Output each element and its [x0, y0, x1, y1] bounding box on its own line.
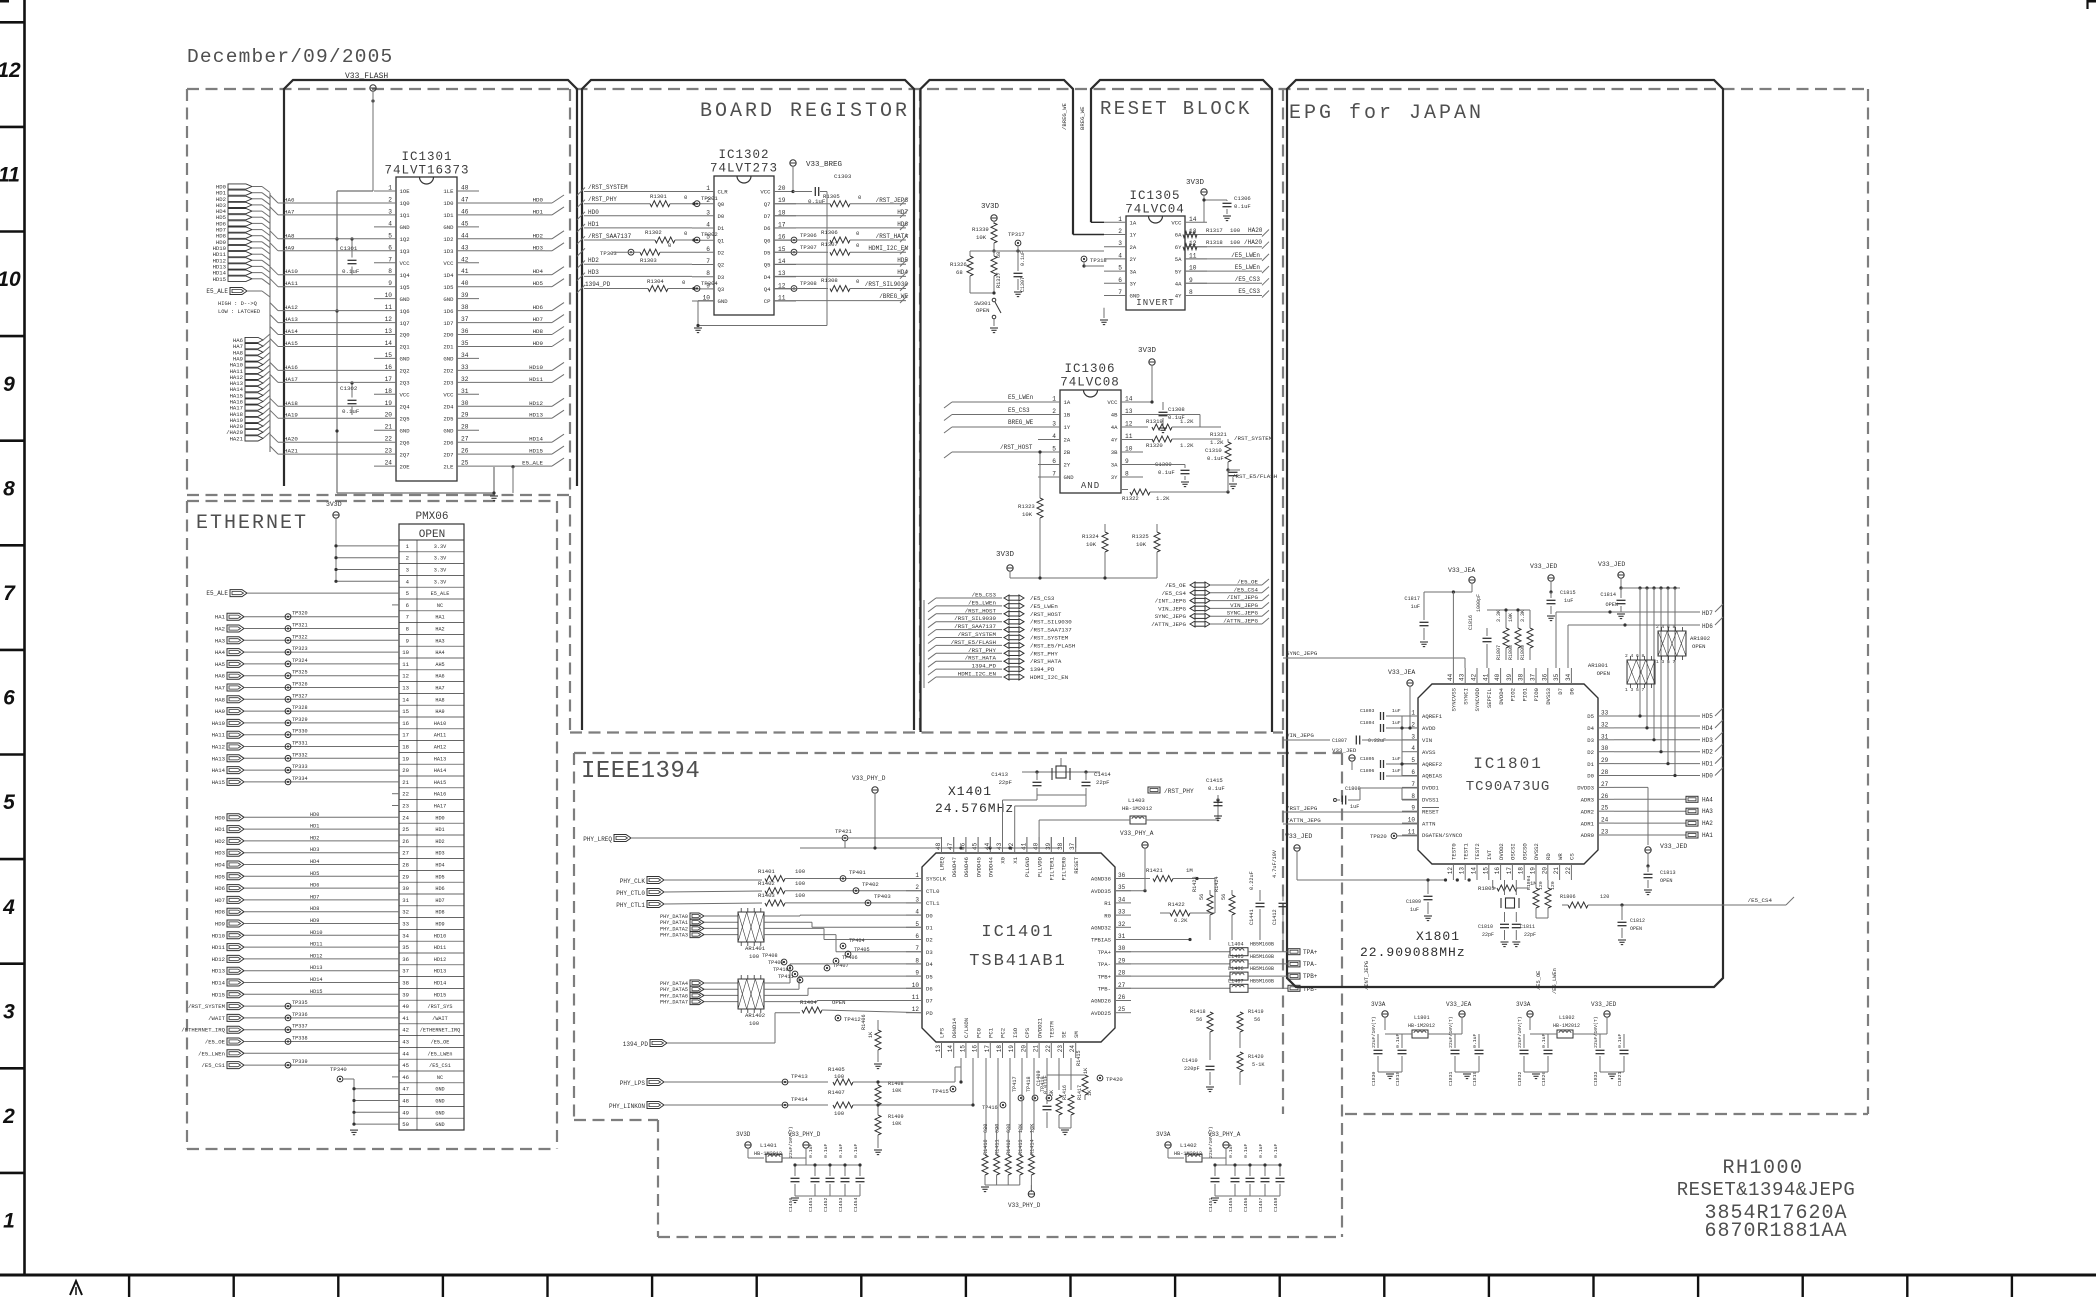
svg-text:HA9: HA9 [284, 244, 295, 251]
svg-text:GND: GND [1064, 474, 1075, 481]
svg-text:R1325: R1325 [1132, 533, 1149, 540]
svg-text:HD14: HD14 [310, 977, 322, 983]
svg-text:1394_PD: 1394_PD [1030, 666, 1055, 673]
svg-text:22uF/10V(T): 22uF/10V(T) [1517, 1016, 1523, 1048]
svg-text:TEST0: TEST0 [1451, 843, 1458, 860]
svg-text:1uF: 1uF [1410, 907, 1419, 913]
svg-text:HD8: HD8 [533, 328, 544, 335]
svg-text:HD0: HD0 [1702, 773, 1713, 780]
svg-text:13: 13 [935, 1045, 942, 1053]
wire SYNC_JEPG [1283, 650, 1380, 658]
svg-text:28: 28 [402, 862, 409, 869]
testpoint TP318 [1081, 256, 1107, 268]
svg-text:1: 1 [3, 1210, 15, 1233]
svg-text:24: 24 [385, 460, 393, 467]
resistor R1808 10K [1508, 610, 1521, 660]
bus entry fan HD0-HD15 into IC1301 [213, 184, 270, 285]
svg-text:/ETHERNET_IRQ: /ETHERNET_IRQ [181, 1027, 225, 1034]
svg-text:HA4: HA4 [1702, 796, 1713, 803]
svg-text:33: 33 [402, 921, 409, 928]
svg-text:/RST_SYSTEM: /RST_SYSTEM [1234, 435, 1273, 442]
svg-text:6870R1881AA: 6870R1881AA [1704, 1220, 1847, 1243]
svg-text:VCC: VCC [1107, 399, 1118, 406]
svg-text:3Y: 3Y [1111, 474, 1118, 481]
svg-text:0: 0 [858, 194, 862, 201]
svg-text:10K: 10K [892, 1088, 902, 1094]
svg-text:PHY_DATA5: PHY_DATA5 [660, 987, 688, 993]
svg-text:1Q5: 1Q5 [400, 284, 410, 291]
svg-text:100: 100 [795, 868, 806, 875]
svg-text:5: 5 [3, 791, 15, 814]
svg-text:4B: 4B [1111, 412, 1118, 419]
svg-text:/E5_OE: /E5_OE [431, 1040, 450, 1046]
svg-text:68: 68 [956, 269, 963, 276]
svg-text:C1413: C1413 [991, 771, 1008, 778]
svg-text:C1832: C1832 [1517, 1071, 1523, 1086]
svg-text:3V3D: 3V3D [996, 551, 1015, 559]
svg-text:39: 39 [461, 292, 469, 299]
resistor R1804 120 [1526, 875, 1544, 918]
resistor R1409 10K [874, 1103, 904, 1154]
svg-text:TP412: TP412 [844, 1016, 861, 1023]
solid box reset small (BREG nets) [921, 80, 1105, 732]
svg-text:PC1: PC1 [988, 1027, 995, 1038]
svg-text:HD15: HD15 [212, 991, 225, 998]
svg-text:1D5: 1D5 [443, 284, 453, 291]
net label list right (jepg nets) [1151, 579, 1269, 629]
svg-text:1: 1 [388, 185, 392, 192]
resistor R1809 3.3K [1520, 610, 1533, 660]
block outline dashed EPG bottom edge [1345, 1113, 1868, 1115]
svg-text:17: 17 [385, 376, 393, 383]
svg-text:1Q6: 1Q6 [400, 308, 410, 315]
svg-text:OPEN: OPEN [976, 307, 989, 314]
svg-text:/E5_CS3: /E5_CS3 [1030, 595, 1055, 602]
svg-text:TP321: TP321 [292, 623, 308, 629]
wires left of IC1302 with R1301-R1304 [584, 184, 718, 292]
svg-text:/RST_E5/FLASH: /RST_E5/FLASH [1030, 642, 1076, 649]
filter cluster L1802 3V3A/V33_JED [1516, 1001, 1629, 1086]
svg-text:39: 39 [1506, 673, 1513, 681]
svg-text:2D0: 2D0 [443, 332, 454, 339]
svg-text:R1302: R1302 [645, 229, 662, 236]
svg-text:HD4: HD4 [215, 862, 226, 869]
svg-text:0.1uF: 0.1uF [1243, 1143, 1249, 1158]
svg-text:ETHERNET: ETHERNET [196, 512, 308, 535]
power V33_BREG [790, 160, 843, 169]
svg-text:HA13: HA13 [434, 756, 446, 762]
svg-text:30: 30 [1601, 745, 1609, 752]
svg-text:35: 35 [1553, 673, 1560, 681]
svg-text:SM: SM [1073, 1031, 1080, 1038]
titleblock RH1000 [1722, 1157, 1803, 1180]
svg-text:HD4: HD4 [435, 863, 444, 869]
svg-text:GND: GND [443, 356, 454, 363]
resistor array AR1802 OPEN [1656, 624, 1710, 665]
svg-text:1.2K: 1.2K [1180, 442, 1194, 449]
svg-text:30: 30 [402, 885, 409, 892]
switch SW301 OPEN [970, 291, 1001, 332]
svg-text:TP303: TP303 [600, 250, 617, 257]
svg-text:4: 4 [1118, 252, 1122, 259]
svg-text:35: 35 [1118, 884, 1126, 891]
svg-text:L1403: L1403 [1128, 797, 1145, 804]
svg-text:SE: SE [1061, 1031, 1068, 1038]
svg-text:HD10: HD10 [529, 364, 543, 371]
svg-text:PHY_LPS: PHY_LPS [620, 1080, 646, 1087]
svg-text:/RST_SAA7137: /RST_SAA7137 [1030, 627, 1072, 634]
wires right of IC1305 R1317 R1318 [1183, 227, 1263, 296]
svg-text:HA4: HA4 [215, 649, 226, 656]
svg-text:R1406: R1406 [861, 1014, 867, 1030]
svg-text:HD8: HD8 [215, 909, 225, 916]
svg-text:CP: CP [764, 298, 771, 305]
svg-text:/RST_E5/FLASH: /RST_E5/FLASH [1232, 473, 1278, 480]
svg-text:37: 37 [461, 316, 469, 323]
svg-text:29: 29 [402, 873, 409, 880]
svg-text:TP324: TP324 [292, 658, 308, 664]
svg-text:DVDD1: DVDD1 [1422, 785, 1439, 792]
ground under IC1301 [490, 496, 498, 501]
svg-text:3.3V: 3.3V [434, 568, 447, 574]
resistor R1803 1M [1478, 880, 1537, 892]
block outline dashed top edge [187, 88, 1868, 90]
svg-text:C1817: C1817 [1404, 596, 1420, 602]
filter cluster L1402 C1451 C1455-C1458 [1156, 1126, 1285, 1212]
svg-text:HA21: HA21 [230, 435, 244, 442]
svg-text:AQBIAS: AQBIAS [1422, 773, 1443, 780]
wires HA6-HA21 to IC1301 pins [278, 197, 374, 455]
svg-text:14: 14 [1189, 216, 1197, 223]
svg-text:HA8: HA8 [215, 696, 225, 703]
svg-text:2D3: 2D3 [443, 380, 453, 387]
svg-text:2B: 2B [1064, 449, 1071, 456]
svg-text:V33_PHY_D: V33_PHY_D [1008, 1202, 1041, 1209]
svg-text:6: 6 [915, 933, 919, 940]
svg-text:R1317: R1317 [1206, 227, 1223, 234]
svg-text:8: 8 [3, 477, 15, 500]
svg-text:3V3D: 3V3D [981, 203, 1000, 211]
svg-text:8: 8 [706, 270, 710, 277]
svg-text:HB-1M2012: HB-1M2012 [1553, 1023, 1580, 1029]
resistor R1419 56 [1237, 1009, 1264, 1048]
svg-text:DVDD2: DVDD2 [1498, 843, 1505, 860]
svg-text:OPEN: OPEN [832, 999, 845, 1006]
svg-text:HD1: HD1 [533, 208, 544, 215]
svg-text:1D4: 1D4 [443, 272, 454, 279]
svg-text:22pF: 22pF [999, 779, 1012, 786]
svg-text:100: 100 [795, 892, 806, 899]
svg-text:HA12: HA12 [212, 744, 225, 751]
svg-text:50: 50 [402, 1121, 409, 1128]
svg-text:PLLVDD: PLLVDD [1036, 856, 1043, 877]
svg-text:20: 20 [1020, 1045, 1027, 1053]
svg-text:9: 9 [915, 970, 919, 977]
svg-text:/E5_LWEn: /E5_LWEn [428, 1051, 453, 1057]
wires bottom pins IC1401 [959, 1058, 1071, 1130]
svg-text:V33_JEA: V33_JEA [1388, 669, 1415, 676]
svg-text:HB5M160B: HB5M160B [1250, 978, 1274, 984]
svg-text:TP405: TP405 [854, 947, 870, 953]
svg-text:AND: AND [1081, 481, 1100, 491]
svg-text:/RST_SIL9030: /RST_SIL9030 [954, 615, 996, 622]
svg-text:680: 680 [983, 1124, 989, 1133]
svg-text:4: 4 [1411, 745, 1415, 752]
svg-text:25: 25 [402, 826, 409, 833]
resistor R1422 6.2K [1115, 879, 1215, 925]
svg-text:HB5M160B: HB5M160B [1250, 954, 1274, 960]
svg-text:HA16: HA16 [284, 364, 298, 371]
resistor R1322 1.2K [1121, 470, 1278, 502]
svg-text:2OE: 2OE [400, 463, 411, 470]
svg-text:7: 7 [1118, 289, 1122, 296]
svg-text:4A: 4A [1111, 424, 1118, 431]
resistor R1807 3.3K [1496, 610, 1509, 660]
svg-text:6.2K: 6.2K [1174, 917, 1188, 924]
svg-text:29: 29 [461, 412, 469, 419]
svg-text:TP323: TP323 [292, 646, 308, 652]
svg-text:Q6: Q6 [764, 237, 771, 244]
svg-text:47: 47 [402, 1086, 409, 1093]
svg-text:22uF/10V(T): 22uF/10V(T) [788, 1126, 794, 1158]
svg-text:V33_JED: V33_JED [1332, 747, 1357, 754]
svg-text:27: 27 [1118, 982, 1126, 989]
svg-text:HD12: HD12 [529, 400, 543, 407]
testpoint TP340 gnd pins [330, 1066, 399, 1135]
svg-text:7: 7 [915, 945, 919, 952]
svg-text:VCC: VCC [760, 189, 771, 196]
wire V33_FLASH to IC1301 [372, 91, 374, 191]
wire VIN_JEPG C1807 [1283, 732, 1418, 745]
svg-text:TP416: TP416 [982, 1105, 998, 1111]
svg-text:HIGH : D-->Q: HIGH : D-->Q [218, 301, 257, 307]
wire bundle V33_JED pullups [1638, 586, 1676, 774]
svg-text:0.1uF: 0.1uF [838, 1143, 844, 1158]
svg-text:6: 6 [406, 602, 409, 609]
svg-text:HA12: HA12 [284, 304, 298, 311]
svg-text:HD6: HD6 [533, 304, 544, 311]
svg-text:HD11: HD11 [212, 944, 226, 951]
svg-text:17: 17 [1506, 867, 1513, 875]
svg-text:E5_LWEn: E5_LWEn [1235, 264, 1261, 271]
svg-text:32: 32 [1118, 921, 1126, 928]
resistor R1324 10K [1082, 524, 1108, 560]
svg-text:3: 3 [3, 1000, 15, 1023]
svg-text:7: 7 [1052, 471, 1056, 478]
svg-text:HA20: HA20 [284, 436, 298, 443]
svg-text:3: 3 [1052, 421, 1056, 428]
svg-text:56: 56 [1254, 1017, 1260, 1023]
svg-text:18: 18 [996, 1045, 1003, 1053]
svg-text:3A: 3A [1130, 268, 1137, 275]
svg-text:0.1uF: 0.1uF [342, 408, 360, 415]
svg-text:36: 36 [461, 328, 469, 335]
svg-text:5-1K: 5-1K [1252, 1062, 1265, 1068]
svg-text:HA2: HA2 [1702, 820, 1713, 827]
svg-text:31: 31 [461, 388, 469, 395]
svg-text:AGND26: AGND26 [1091, 998, 1111, 1005]
svg-text:11: 11 [385, 304, 393, 311]
svg-text:0: 0 [668, 242, 672, 249]
svg-text:9: 9 [1125, 458, 1129, 465]
svg-text:HD3: HD3 [310, 847, 319, 853]
svg-text:V33_JED: V33_JED [1598, 561, 1625, 568]
svg-text:1: 1 [1052, 396, 1056, 403]
svg-text:HD0: HD0 [435, 815, 444, 821]
filter cluster L1801 3V3A/V33_JEA [1371, 1001, 1484, 1086]
svg-text:V33_JEA: V33_JEA [1448, 567, 1475, 574]
svg-text:100: 100 [834, 1073, 845, 1080]
capacitor C1816 1000pF [1468, 594, 1492, 668]
svg-text:10K: 10K [1136, 541, 1147, 548]
svg-text:R1803: R1803 [1478, 885, 1495, 892]
svg-text:11: 11 [1125, 433, 1133, 440]
svg-text:DGND14: DGND14 [951, 1017, 958, 1038]
svg-text:L1401: L1401 [760, 1142, 777, 1149]
svg-text:HD0: HD0 [215, 814, 226, 821]
svg-text:RESET BLOCK: RESET BLOCK [1100, 98, 1252, 120]
svg-text:14: 14 [402, 696, 409, 703]
svg-text:PHY_DATA3: PHY_DATA3 [660, 933, 688, 939]
svg-text:1uF: 1uF [1411, 604, 1420, 610]
svg-text:26: 26 [402, 838, 409, 845]
svg-text:HB5M160B: HB5M160B [1250, 942, 1274, 948]
svg-text:HD3: HD3 [588, 269, 599, 276]
svg-text:D2: D2 [926, 937, 933, 944]
svg-text:C1303: C1303 [834, 173, 852, 180]
wires D5-D0 to HD5-HD0 [1614, 708, 1723, 780]
power V33_JED right [1645, 843, 1688, 868]
svg-text:1uF: 1uF [1350, 804, 1359, 810]
svg-text:2Q1: 2Q1 [400, 344, 411, 351]
svg-text:X1: X1 [1012, 856, 1019, 863]
wire DVDD3 pin27 [1614, 787, 1648, 845]
power V33_PHY_D bottom [1008, 1185, 1041, 1209]
svg-text:49: 49 [402, 1109, 409, 1116]
svg-text:HD9: HD9 [533, 340, 544, 347]
svg-text:HA3: HA3 [435, 638, 444, 644]
svg-text:R1307: R1307 [821, 241, 838, 248]
svg-text:10K: 10K [1508, 613, 1514, 622]
svg-text:X1801: X1801 [1416, 929, 1460, 944]
svg-text:C1455: C1455 [1228, 1197, 1234, 1212]
svg-text:/E5_CS1: /E5_CS1 [429, 1063, 451, 1069]
svg-text:D0: D0 [1587, 773, 1594, 780]
svg-text:220pF: 220pF [1184, 1066, 1200, 1072]
svg-text:R1305: R1305 [823, 193, 840, 200]
svg-text:PHY_DATA1: PHY_DATA1 [660, 920, 688, 926]
svg-text:/E5_OE: /E5_OE [1165, 582, 1186, 589]
resistor R1408 10K [875, 1080, 904, 1105]
wire /ATTN_JEPG [1283, 817, 1418, 824]
svg-text:/RST_E5/FLASH: /RST_E5/FLASH [951, 639, 997, 646]
svg-text:HA14: HA14 [434, 768, 446, 774]
svg-text:HD1: HD1 [1702, 761, 1713, 768]
svg-text:TP409: TP409 [768, 960, 784, 966]
svg-text:VCC: VCC [400, 392, 411, 399]
svg-text:/E5_CS1: /E5_CS1 [202, 1062, 226, 1069]
svg-text:R1407: R1407 [828, 1089, 845, 1096]
svg-text:42: 42 [402, 1027, 409, 1034]
svg-text:3.3V: 3.3V [434, 544, 447, 550]
svg-text:R1414: R1414 [1029, 1139, 1035, 1155]
svg-text:0.1uF: 0.1uF [1395, 1033, 1401, 1048]
svg-text:2: 2 [1411, 721, 1415, 728]
svg-text:2A: 2A [1130, 244, 1137, 251]
svg-text:GND: GND [443, 427, 454, 434]
svg-text:TP411: TP411 [778, 974, 794, 980]
svg-text:2Y: 2Y [1064, 462, 1071, 469]
svg-text:48: 48 [461, 185, 469, 192]
svg-text:0: 0 [684, 194, 688, 201]
svg-text:D4: D4 [1587, 725, 1594, 732]
svg-text:44: 44 [461, 232, 469, 239]
signal E5_ALE to PMX06 [206, 590, 399, 598]
svg-text:3.3K: 3.3K [1496, 610, 1502, 622]
svg-text:L1801: L1801 [1414, 1015, 1430, 1021]
svg-text:1Q7: 1Q7 [400, 320, 410, 327]
svg-text:December/09/2005: December/09/2005 [187, 46, 393, 68]
svg-text:GND: GND [443, 224, 454, 231]
solid box RESET BLOCK [1091, 80, 1272, 732]
svg-text:/RST_SYSTEM: /RST_SYSTEM [958, 631, 997, 638]
svg-text:HA9: HA9 [215, 708, 225, 715]
svg-text:D4: D4 [926, 961, 933, 968]
svg-text:ADR1: ADR1 [1581, 820, 1595, 827]
svg-text:OPEN: OPEN [1692, 643, 1705, 650]
capacitor C1812 OPEN [1618, 903, 1646, 944]
svg-text:23: 23 [385, 448, 393, 455]
IC IC1305 74LVC04 [1104, 189, 1207, 310]
svg-text:/E5_CS4: /E5_CS4 [1234, 586, 1259, 593]
svg-text:VIN_JEPG: VIN_JEPG [1230, 602, 1258, 609]
svg-text:1uF: 1uF [1392, 720, 1401, 726]
svg-text:IC1301: IC1301 [401, 150, 452, 164]
svg-text:PHY_DATA0: PHY_DATA0 [660, 914, 688, 920]
svg-text:HD12: HD12 [212, 956, 225, 963]
connector PMX06 OPEN 50-pin table [392, 511, 464, 1130]
svg-text:DVDD21: DVDD21 [1036, 1017, 1043, 1038]
svg-text:OPEN: OPEN [1630, 926, 1642, 932]
svg-text:IC1401: IC1401 [981, 923, 1054, 942]
svg-text:HD4: HD4 [533, 268, 544, 275]
svg-text:1OE: 1OE [400, 188, 411, 195]
svg-text:17: 17 [984, 1045, 991, 1053]
svg-text:HA10: HA10 [284, 268, 298, 275]
svg-text:18: 18 [778, 209, 786, 216]
svg-text:SYNC_JEPG: SYNC_JEPG [1227, 610, 1259, 617]
svg-text:6: 6 [1411, 769, 1415, 776]
svg-text:120: 120 [1538, 881, 1544, 890]
svg-text:56: 56 [1199, 894, 1205, 900]
svg-text:35: 35 [402, 944, 409, 951]
svg-text:PLLGND: PLLGND [1024, 856, 1031, 877]
svg-text:HD5: HD5 [897, 257, 908, 264]
svg-text:28: 28 [1118, 970, 1126, 977]
svg-text:56: 56 [1196, 1017, 1202, 1023]
svg-text:41: 41 [1020, 842, 1027, 850]
svg-text:VCC: VCC [443, 260, 454, 267]
svg-text:/RST_HATA: /RST_HATA [965, 655, 997, 662]
svg-text:D0: D0 [926, 912, 933, 919]
svg-text:HD3: HD3 [1702, 737, 1713, 744]
svg-text:120: 120 [1550, 881, 1556, 890]
svg-text:/INT_JEPG: /INT_JEPG [1364, 961, 1370, 990]
svg-text:Q2: Q2 [718, 262, 725, 269]
svg-text:HA3: HA3 [1702, 808, 1713, 815]
svg-text:1 3 5 7: 1 3 5 7 [1656, 659, 1676, 665]
svg-text:36: 36 [402, 956, 409, 963]
